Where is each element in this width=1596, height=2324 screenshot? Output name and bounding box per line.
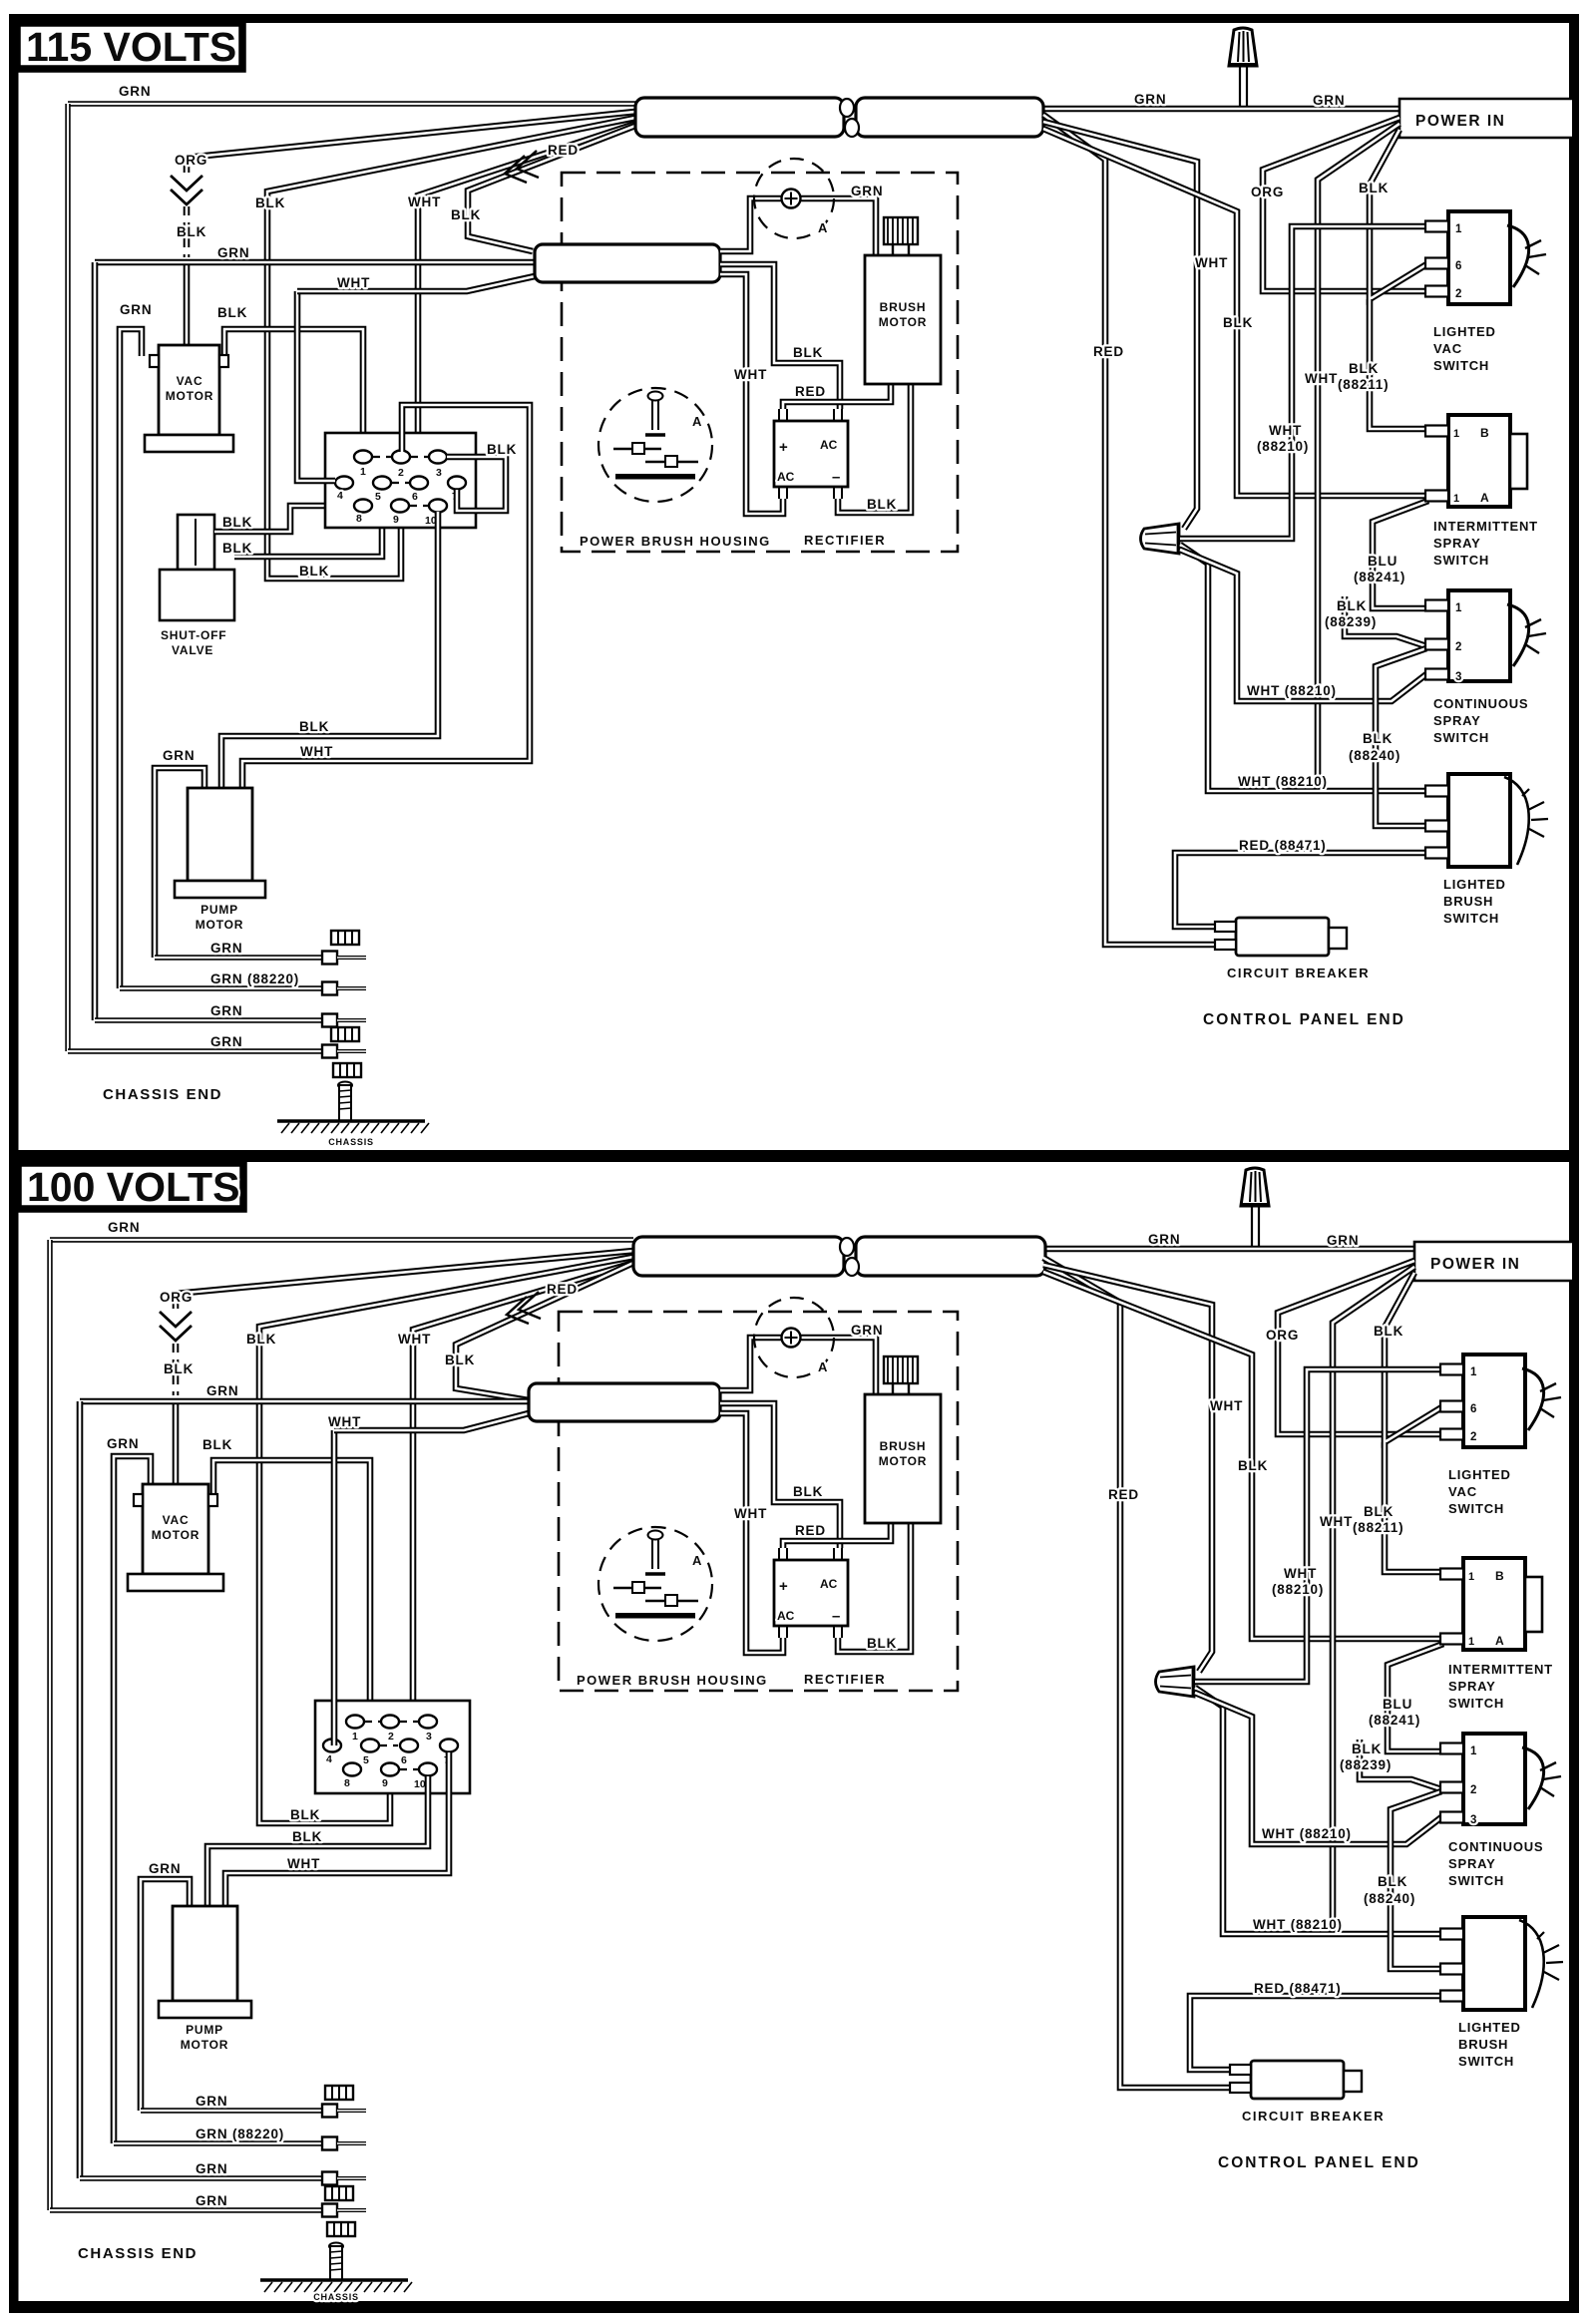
harness cable segment B (100V) — [856, 1237, 1045, 1276]
svg-text:9: 9 — [393, 514, 399, 526]
svg-text:WHT: WHT — [1195, 255, 1228, 270]
wire WHT terminal 4 riser (100V) — [331, 1430, 338, 1745]
svg-text:POWER BRUSH HOUSING: POWER BRUSH HOUSING — [577, 1673, 768, 1688]
svg-text:ORG: ORG — [160, 1290, 193, 1305]
wire BLK vac motor to terminal 5 (100V) — [213, 1460, 370, 1742]
wire WHT 88210 to brush switch 1 (115V) — [1180, 545, 1426, 791]
circuit breaker (115V) — [1215, 918, 1347, 956]
svg-text:WHT: WHT — [1320, 1514, 1353, 1529]
svg-text:BLK: BLK — [445, 1353, 475, 1367]
svg-text:WHT: WHT — [734, 367, 767, 382]
wire WHT housing to rectifier AC (115V) — [720, 274, 783, 514]
wire GRN + to brush motor (115V) — [798, 198, 876, 255]
svg-text:ORG: ORG — [1266, 1328, 1299, 1343]
power brush housing dashed box (115V) — [562, 173, 958, 552]
svg-text:2: 2 — [398, 467, 404, 479]
svg-text:VAC: VAC — [177, 374, 203, 388]
svg-text:B: B — [1480, 426, 1489, 440]
svg-text:WHT: WHT — [1284, 1566, 1317, 1581]
chassis lug 3 (115V) — [322, 1014, 366, 1027]
svg-text:8: 8 — [356, 513, 362, 525]
RED continuation arrow (100V) — [507, 1292, 541, 1324]
wire GRN row 3 (100V) — [80, 2175, 322, 2180]
svg-text:CHASSIS: CHASSIS — [313, 2292, 359, 2302]
svg-text:AC: AC — [820, 1577, 838, 1591]
wire WHT terminal 4 riser (115V) — [297, 291, 335, 481]
intermittent spray switch (100V) — [1463, 1558, 1525, 1650]
dashed link pins 2-3 (100V) — [400, 1721, 418, 1723]
svg-text:VAC: VAC — [163, 1513, 190, 1527]
svg-text:A: A — [1480, 491, 1489, 505]
dashed link pins 1-2 (115V) — [373, 456, 391, 458]
svg-text:6: 6 — [401, 1754, 407, 1766]
wire RED main to circuit breaker (100V) — [1043, 1258, 1233, 2088]
svg-text:3: 3 — [436, 467, 442, 479]
svg-text:2: 2 — [1455, 288, 1462, 300]
lighted brush switch (115V) — [1448, 774, 1510, 867]
wire BLK harness to terminal 9 (100V) — [259, 1257, 633, 1823]
svg-text:MOTOR: MOTOR — [879, 315, 927, 329]
svg-text:BRUSH: BRUSH — [880, 300, 927, 314]
wire BLK into vac motor top (100V) — [173, 1399, 180, 1484]
svg-text:BLK: BLK — [867, 1636, 897, 1651]
wire RED 88471 (100V) — [1190, 1996, 1441, 2070]
svg-text:(88240): (88240) — [1364, 1891, 1415, 1906]
svg-text:BLK: BLK — [1378, 1874, 1407, 1889]
chassis lug 1 (115V) — [322, 952, 366, 965]
svg-text:BLU: BLU — [1368, 554, 1397, 569]
svg-text:WHT (88210): WHT (88210) — [1238, 774, 1328, 789]
svg-text:GRN: GRN — [196, 2094, 227, 2109]
rectifier (100V) — [774, 1560, 848, 1626]
wire BLK into vac motor top (115V) — [184, 261, 191, 345]
wire RED rectifier to brush motor (115V) — [783, 384, 891, 409]
wire BLK harness to brush housing (100V) — [456, 1263, 633, 1400]
svg-text:SWITCH: SWITCH — [1448, 1873, 1504, 1888]
svg-text:GRN: GRN — [851, 1323, 883, 1338]
wire WHT harness to splice (115V) — [1043, 122, 1197, 529]
svg-text:GRN: GRN — [206, 1383, 238, 1398]
wire nut splice over GRN (115V) — [1239, 66, 1241, 107]
wire GRN vertical row3 (100V) — [77, 1401, 84, 2178]
svg-text:GRN: GRN — [149, 1861, 181, 1876]
svg-text:(88211): (88211) — [1338, 377, 1389, 392]
wire WHT 88210 to brush switch 1 (100V) — [1195, 1688, 1441, 1934]
svg-text:SHUT-OFF: SHUT-OFF — [161, 628, 226, 642]
svg-text:1: 1 — [1468, 1636, 1475, 1648]
wire WHT 88210 to vac switch 1 (115V) — [1180, 226, 1426, 539]
housing harness cable (115V) — [535, 244, 720, 282]
wire ORG power-in to vac switch 2 (115V) — [1263, 118, 1426, 291]
harness cable segment A (115V) — [635, 98, 844, 137]
pump motor (115V) — [175, 788, 265, 898]
svg-text:BLK: BLK — [292, 1829, 322, 1844]
svg-text:+: + — [779, 439, 788, 456]
connector comb 3 (115V) — [333, 1063, 361, 1077]
svg-text:GRN: GRN — [196, 2193, 227, 2208]
dashed link pins 9-10 (100V) — [400, 1768, 418, 1770]
svg-text:A: A — [692, 414, 702, 429]
wire BLK 88211 (115V) — [1370, 299, 1426, 429]
screw detail circle A (100V) — [598, 1527, 712, 1641]
svg-text:+: + — [779, 1578, 788, 1595]
wire WHT to housing harness (115V) — [297, 276, 535, 291]
svg-text:SPRAY: SPRAY — [1448, 1856, 1496, 1871]
svg-text:2: 2 — [388, 1731, 394, 1743]
svg-text:MOTOR: MOTOR — [152, 1528, 199, 1542]
rectifier (115V) — [774, 421, 848, 487]
wire WHT 88210 to continuous 3 (115V) — [1180, 550, 1426, 701]
wire BLK 88240 (115V) — [1376, 648, 1426, 826]
svg-text:VAC: VAC — [1433, 341, 1462, 356]
svg-text:6: 6 — [412, 491, 418, 503]
svg-text:4: 4 — [337, 490, 343, 502]
svg-text:LIGHTED: LIGHTED — [1433, 324, 1496, 339]
wire BLU 88241 (115V) — [1373, 501, 1428, 608]
svg-text:SWITCH: SWITCH — [1443, 911, 1499, 926]
dashed BLK lead to vac motor (100V) — [173, 1344, 180, 1395]
svg-text:PUMP: PUMP — [186, 2023, 223, 2037]
wire ORG from harness (100V) — [176, 1251, 633, 1309]
svg-text:GRN: GRN — [196, 2161, 227, 2176]
wire BLK housing to rectifier AC (115V) — [720, 264, 840, 409]
svg-text:BRUSH: BRUSH — [1458, 2037, 1508, 2052]
wire RED rectifier to brush motor (100V) — [783, 1523, 891, 1548]
ORG continuation arrow (115V) — [171, 176, 202, 204]
svg-text:1: 1 — [352, 1731, 358, 1743]
terminal block (100V) — [315, 1701, 470, 1793]
svg-text:BLK: BLK — [1364, 1504, 1394, 1519]
POWER IN box (115V) — [1399, 99, 1572, 138]
wire BLK rectifier to brush motor (115V) — [838, 384, 911, 513]
wire BLK power-in to vac switch 6 (115V) — [1370, 130, 1428, 299]
svg-text:WHT: WHT — [1269, 423, 1302, 438]
dashed link pins 1-2 (100V) — [365, 1721, 381, 1723]
wire BLK terminal 10 to pump (100V) — [207, 1776, 428, 1906]
title box 100 VOLTS — [18, 1163, 243, 1210]
svg-text:POWER IN: POWER IN — [1430, 1256, 1520, 1273]
svg-text:CIRCUIT BREAKER: CIRCUIT BREAKER — [1242, 2109, 1385, 2124]
wire GRN row 3 (115V) — [95, 1017, 322, 1022]
svg-text:RED (88471): RED (88471) — [1239, 838, 1327, 853]
continuous spray switch (115V) — [1448, 590, 1510, 681]
dashed link pins 5-6 (115V) — [392, 482, 409, 484]
svg-text:GRN: GRN — [210, 941, 242, 956]
chassis lug 4 (115V) — [322, 1045, 366, 1058]
wire WHT power-in bus (115V) — [1318, 124, 1399, 791]
svg-text:GRN: GRN — [1313, 93, 1345, 108]
wire splice nut (115V) — [1141, 523, 1180, 555]
brush motor commutator (100V) — [884, 1356, 918, 1394]
svg-text:CONTINUOUS: CONTINUOUS — [1433, 696, 1528, 711]
svg-text:BLK: BLK — [299, 719, 329, 734]
svg-text:LIGHTED: LIGHTED — [1443, 877, 1506, 892]
wire nut connector (115V) — [1228, 28, 1258, 66]
lighted vac switch (100V) — [1463, 1355, 1525, 1447]
connector comb 2 (100V) — [325, 2186, 353, 2200]
svg-text:GRN: GRN — [1327, 1233, 1359, 1248]
svg-text:4: 4 — [326, 1753, 332, 1765]
wire to ground terminal + (100V) — [720, 1338, 784, 1390]
svg-text:CHASSIS: CHASSIS — [328, 1137, 374, 1147]
wire BLK harness to terminal 9 (115V) — [267, 118, 635, 579]
brush switch lever (115V) — [1504, 777, 1529, 865]
svg-text:1: 1 — [1470, 1366, 1477, 1378]
dashed link pins 5-6 (100V) — [380, 1744, 398, 1746]
svg-text:AC: AC — [777, 1609, 795, 1623]
wire BLK harness to brush housing (115V) — [468, 126, 635, 251]
svg-text:RED: RED — [795, 384, 826, 399]
svg-text:ORG: ORG — [175, 153, 207, 168]
svg-text:(88241): (88241) — [1369, 1713, 1420, 1728]
svg-text:BLK: BLK — [1359, 181, 1389, 195]
grounding terminal circle A (100V) — [754, 1298, 834, 1377]
svg-text:PUMP: PUMP — [200, 903, 238, 917]
svg-text:GRN: GRN — [107, 1436, 139, 1451]
svg-text:RECTIFIER: RECTIFIER — [804, 1672, 886, 1687]
svg-text:WHT: WHT — [1210, 1398, 1243, 1413]
wire WHT terminal 7 to pump (100V) — [225, 1752, 449, 1906]
svg-text:MOTOR: MOTOR — [196, 918, 243, 932]
svg-text:GRN: GRN — [119, 84, 151, 99]
wire BLK rectifier to brush motor (100V) — [838, 1523, 911, 1652]
svg-text:1: 1 — [1455, 223, 1462, 235]
svg-text:AC: AC — [777, 470, 795, 484]
terminal block pins row 3 (100V) — [343, 1763, 361, 1776]
svg-text:GRN: GRN — [851, 184, 883, 198]
wire WHT to housing harness (100V) — [334, 1413, 529, 1430]
svg-text:RED: RED — [547, 1282, 578, 1297]
chassis ground screw (100V) — [260, 2243, 412, 2293]
svg-text:GRN (88220): GRN (88220) — [210, 971, 299, 986]
brush motor (115V) — [865, 255, 941, 384]
svg-text:WHT (88210): WHT (88210) — [1253, 1917, 1343, 1932]
svg-text:–: – — [832, 1608, 840, 1625]
wire WHT housing to rectifier AC (100V) — [720, 1413, 783, 1653]
svg-text:WHT (88210): WHT (88210) — [1247, 683, 1337, 698]
svg-text:SPRAY: SPRAY — [1433, 713, 1481, 728]
power brush housing dashed box (100V) — [559, 1312, 958, 1691]
svg-text:SWITCH: SWITCH — [1448, 1501, 1504, 1516]
svg-text:CONTROL PANEL END: CONTROL PANEL END — [1203, 1011, 1405, 1028]
svg-text:1: 1 — [1468, 1571, 1475, 1583]
svg-text:LIGHTED: LIGHTED — [1448, 1467, 1511, 1482]
terminal block (115V) — [325, 433, 476, 528]
wire GRN to POWER IN (100V) — [1043, 1246, 1414, 1253]
vac motor (100V) — [128, 1484, 223, 1591]
vac switch lever (100V) — [1522, 1368, 1544, 1430]
wire WHT 88210 to vac switch 1 (100V) — [1195, 1369, 1441, 1682]
wire GRN to POWER IN (115V) — [1043, 106, 1399, 113]
svg-text:BLK: BLK — [217, 305, 247, 320]
svg-text:2: 2 — [1470, 1784, 1477, 1796]
lighted brush switch (100V) — [1463, 1917, 1525, 2010]
svg-text:VALVE: VALVE — [172, 643, 213, 657]
wire GRN leftmost vertical (115V) — [65, 104, 70, 1051]
svg-text:GRN: GRN — [163, 748, 195, 763]
svg-text:115 VOLTS: 115 VOLTS — [26, 24, 236, 70]
wire GRN row 4 (100V) — [50, 2207, 322, 2212]
svg-text:A: A — [818, 1359, 828, 1374]
POWER IN box (100V) — [1414, 1242, 1572, 1281]
brush motor commutator (115V) — [884, 217, 918, 255]
svg-text:(88240): (88240) — [1349, 748, 1400, 763]
wire GRN pump to chassis lug (115V) — [155, 768, 204, 958]
svg-text:WHT (88210): WHT (88210) — [1262, 1826, 1352, 1841]
svg-text:WHT: WHT — [734, 1506, 767, 1521]
svg-text:BLK: BLK — [1223, 315, 1253, 330]
dashed BLK lead to vac motor (115V) — [184, 206, 191, 257]
wire BLK 88211 (100V) — [1385, 1442, 1441, 1572]
svg-text:SWITCH: SWITCH — [1433, 730, 1489, 745]
circuit breaker (100V) — [1230, 2061, 1362, 2099]
svg-text:BLK: BLK — [202, 1437, 232, 1452]
wire BLK vac motor to terminal 1 (115V) — [224, 329, 363, 452]
svg-text:BRUSH: BRUSH — [880, 1439, 927, 1453]
wire GRN row 1 (100V) — [141, 2108, 322, 2113]
svg-text:SWITCH: SWITCH — [1433, 553, 1489, 568]
svg-text:GRN: GRN — [210, 1003, 242, 1018]
wire WHT pump to terminal 2 (115V) — [242, 405, 530, 788]
rectifier terminals (115V) — [779, 409, 842, 499]
svg-text:1: 1 — [1470, 1745, 1477, 1757]
connector comb 1 (115V) — [331, 931, 359, 945]
svg-text:6: 6 — [1455, 260, 1462, 272]
connector comb 3 (100V) — [327, 2222, 355, 2236]
vac switch lever (115V) — [1507, 225, 1529, 287]
wire BLK power-in to vac switch 6 (100V) — [1385, 1273, 1443, 1442]
svg-text:RED: RED — [548, 143, 579, 158]
svg-text:BLU: BLU — [1383, 1697, 1412, 1712]
svg-text:2: 2 — [1455, 641, 1462, 653]
chassis ground screw (115V) — [277, 1082, 429, 1134]
chassis lug 1 (100V) — [322, 2105, 366, 2118]
svg-text:CONTINUOUS: CONTINUOUS — [1448, 1839, 1543, 1854]
svg-text:SPRAY: SPRAY — [1448, 1679, 1496, 1694]
svg-text:1: 1 — [1453, 428, 1460, 440]
wire WHT harness to splice (100V) — [1043, 1265, 1212, 1672]
rectifier terminals (100V) — [779, 1548, 842, 1638]
svg-text:GRN: GRN — [1148, 1232, 1180, 1247]
wire BLK housing to rectifier AC (100V) — [720, 1403, 840, 1548]
svg-text:WHT: WHT — [337, 275, 370, 290]
brush motor (100V) — [865, 1394, 941, 1523]
svg-text:BLK: BLK — [1337, 598, 1367, 613]
wire GRN chassis main (100V) — [50, 1237, 633, 1242]
svg-text:GRN: GRN — [1134, 92, 1166, 107]
svg-text:RECTIFIER: RECTIFIER — [804, 533, 886, 548]
lighted vac switch (115V) — [1448, 211, 1510, 304]
svg-text:WHT: WHT — [398, 1332, 431, 1347]
svg-text:100 VOLTS: 100 VOLTS — [27, 1164, 239, 1210]
svg-text:A: A — [818, 220, 828, 235]
svg-text:BLK: BLK — [1352, 1742, 1382, 1756]
svg-text:CIRCUIT BREAKER: CIRCUIT BREAKER — [1227, 966, 1370, 980]
svg-text:RED: RED — [795, 1523, 826, 1538]
wire BLK 88240 (100V) — [1391, 1791, 1441, 1969]
harness cable segment A (100V) — [633, 1237, 844, 1276]
svg-text:(88239): (88239) — [1340, 1757, 1392, 1772]
wire splice nut (100V) — [1156, 1666, 1195, 1698]
svg-text:BLK: BLK — [793, 345, 823, 360]
svg-text:BLK: BLK — [222, 515, 252, 530]
continuous spray switch (100V) — [1463, 1734, 1525, 1824]
svg-text:5: 5 — [363, 1754, 369, 1766]
chassis lug 2 (100V) — [322, 2137, 366, 2150]
svg-text:BRUSH: BRUSH — [1443, 894, 1493, 909]
ORG continuation arrow (100V) — [160, 1312, 192, 1341]
screw detail circle A (115V) — [598, 388, 712, 502]
svg-text:A: A — [1495, 1634, 1504, 1648]
wire GRN row 2 (100V) — [114, 2140, 322, 2145]
chassis lug 2 (115V) — [322, 982, 366, 995]
cable break symbol (100V) — [840, 1238, 854, 1256]
svg-text:5: 5 — [375, 491, 381, 503]
terminal block pins row 2 (115V) — [335, 477, 353, 490]
svg-text:GRN: GRN — [210, 1034, 242, 1049]
svg-text:3: 3 — [1470, 1814, 1477, 1826]
svg-text:A: A — [692, 1553, 702, 1568]
terminal block pins row 1 (115V) — [354, 451, 372, 464]
svg-text:RED: RED — [1093, 344, 1124, 359]
wire WHT harness to terminal 6 (115V) — [418, 124, 635, 478]
wire WHT power-in bus (100V) — [1333, 1267, 1414, 1934]
wire BLK to intermittent A (115V) — [1043, 129, 1426, 496]
svg-text:2: 2 — [1470, 1431, 1477, 1443]
wire GRN leftmost vertical (100V) — [47, 1240, 52, 2210]
wire BLK to intermittent A (100V) — [1043, 1272, 1441, 1639]
svg-text:POWER IN: POWER IN — [1415, 113, 1505, 130]
svg-text:BLK: BLK — [177, 224, 206, 239]
svg-text:WHT: WHT — [328, 1414, 361, 1429]
svg-text:GRN (88220): GRN (88220) — [196, 2127, 284, 2141]
wire ORG power-in to vac switch 2 (100V) — [1278, 1261, 1441, 1434]
wire GRN pump to chassis lug (100V) — [141, 1879, 190, 2111]
chassis lug 3 (100V) — [322, 2172, 366, 2185]
wire to ground terminal + (115V) — [720, 198, 784, 251]
svg-text:3: 3 — [1455, 671, 1462, 683]
svg-text:BLK: BLK — [164, 1361, 194, 1376]
brush switch lever (100V) — [1519, 1920, 1544, 2008]
svg-text:CHASSIS END: CHASSIS END — [78, 2245, 198, 2262]
svg-text:ORG: ORG — [1251, 185, 1284, 199]
svg-text:BLK: BLK — [299, 564, 329, 579]
svg-text:GRN: GRN — [217, 245, 249, 260]
svg-text:(88239): (88239) — [1325, 614, 1377, 629]
svg-text:BLK: BLK — [487, 442, 517, 457]
svg-text:WHT: WHT — [287, 1856, 320, 1871]
housing harness cable (100V) — [529, 1383, 720, 1421]
RED continuation arrow (115V) — [505, 151, 539, 183]
intermittent spray switch (115V) — [1448, 415, 1510, 507]
svg-text:POWER BRUSH HOUSING: POWER BRUSH HOUSING — [580, 534, 771, 549]
wire BLK 88239 (115V) — [1345, 596, 1426, 646]
wire nut splice over GRN (100V) — [1251, 1206, 1253, 1247]
wire BLK valve to terminal 8 (115V) — [214, 506, 356, 532]
svg-text:(88210): (88210) — [1272, 1582, 1324, 1597]
svg-text:BLK: BLK — [1374, 1324, 1403, 1339]
shut-off valve (115V) — [160, 515, 234, 620]
wire GRN vertical row3 (115V) — [92, 262, 99, 1020]
svg-text:INTERMITTENT: INTERMITTENT — [1433, 519, 1538, 534]
svg-text:SPRAY: SPRAY — [1433, 536, 1481, 551]
terminal block pins row 2 (100V) — [323, 1740, 341, 1752]
svg-text:LIGHTED: LIGHTED — [1458, 2020, 1521, 2035]
svg-text:WHT: WHT — [300, 744, 333, 759]
svg-text:SWITCH: SWITCH — [1448, 1696, 1504, 1711]
wire BLK loop terminal 3 to 7 (115V) — [447, 457, 506, 511]
svg-text:WHT: WHT — [408, 194, 441, 209]
